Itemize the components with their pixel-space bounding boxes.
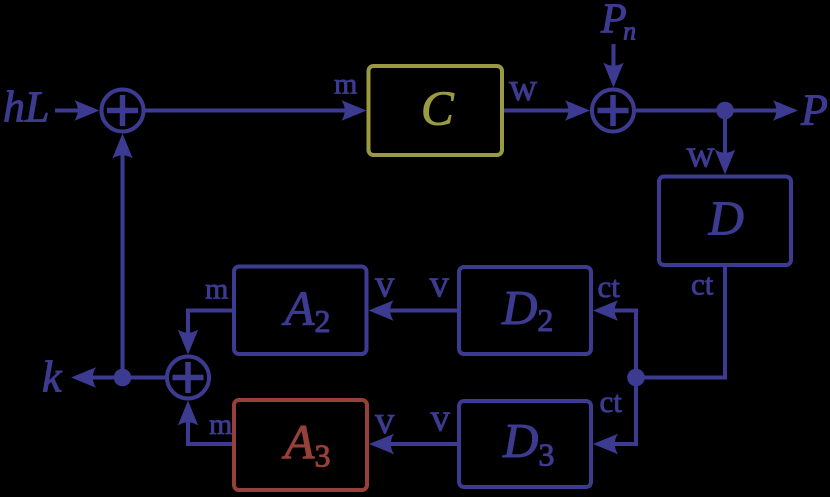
svg-text:P: P xyxy=(800,86,828,135)
svg-text:m: m xyxy=(209,408,232,441)
svg-text:k: k xyxy=(42,353,63,402)
svg-text:D: D xyxy=(708,191,744,246)
svg-text:v: v xyxy=(430,263,450,306)
svg-text:hL: hL xyxy=(3,83,49,132)
svg-text:C: C xyxy=(421,81,455,136)
svg-text:m: m xyxy=(205,273,228,306)
svg-text:w: w xyxy=(687,133,715,176)
svg-text:w: w xyxy=(509,66,537,109)
svg-text:v: v xyxy=(375,263,395,306)
svg-text:ct: ct xyxy=(691,267,714,302)
svg-text:m: m xyxy=(334,68,357,101)
svg-text:v: v xyxy=(431,397,451,440)
svg-text:ct: ct xyxy=(600,384,623,419)
svg-text:ct: ct xyxy=(598,269,621,304)
svg-text:v: v xyxy=(375,399,395,442)
